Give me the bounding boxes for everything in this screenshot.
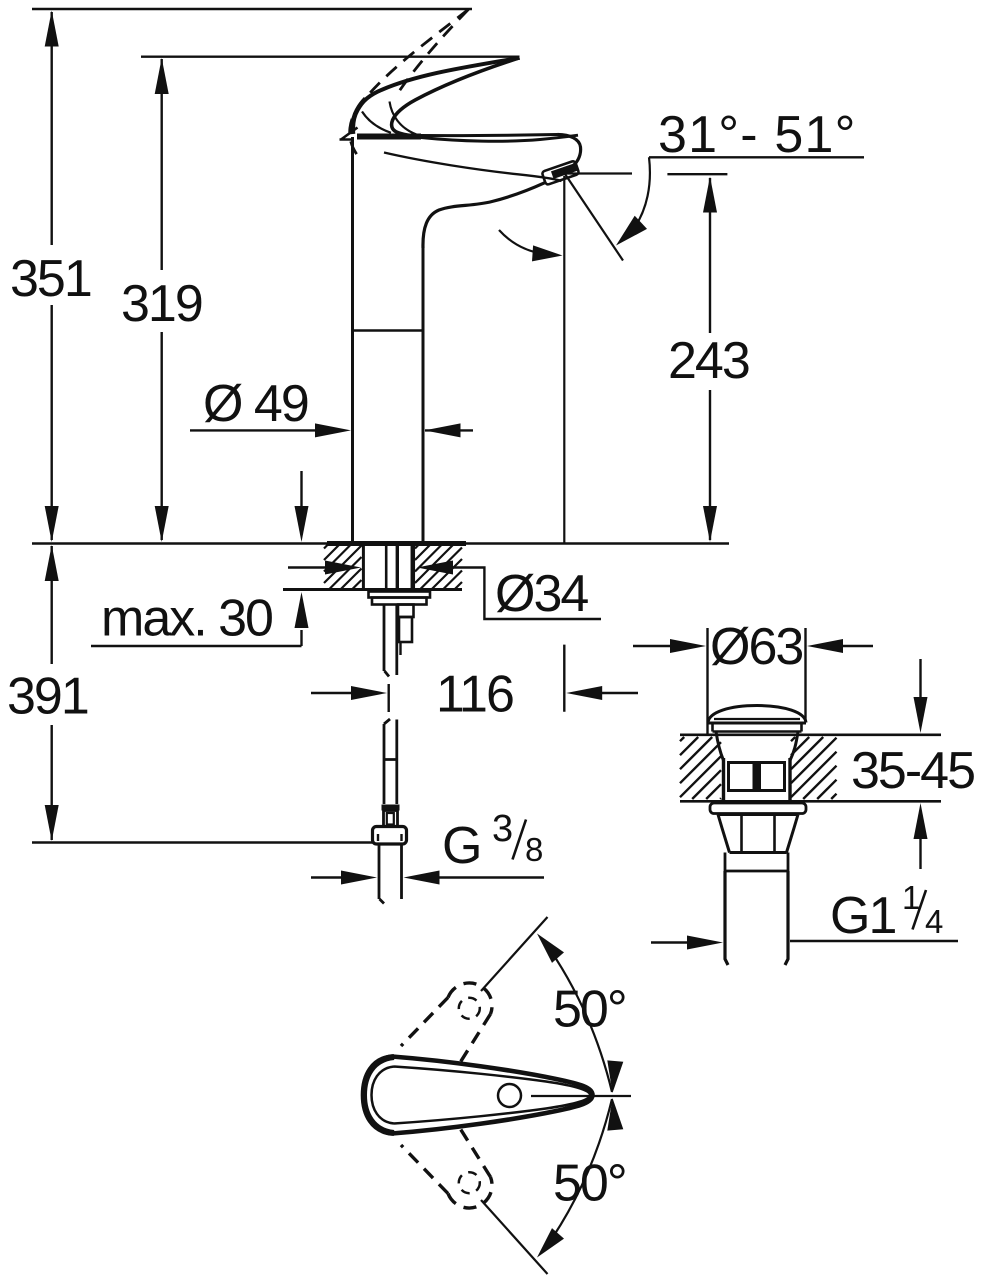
dimension 351 vertical line [51, 12, 53, 540]
counter underside line [283, 588, 462, 591]
supply tube lower section with break [384, 719, 397, 804]
counter top surface line [32, 542, 729, 544]
centre line [531, 1095, 631, 1097]
extension line top (351 reference, raised lever tip) [32, 8, 472, 10]
max.30 leader underline [91, 645, 302, 647]
391 bottom reference line [32, 841, 373, 843]
svg-text:4: 4 [925, 903, 943, 940]
drain body neck [716, 732, 798, 761]
svg-text:319: 319 [121, 275, 202, 333]
dimension G3/8 left arrow [311, 876, 345, 878]
lower 50 deg axis line [481, 1200, 548, 1274]
handle top view outer left arc (heavy) [364, 1057, 394, 1133]
116 right extension line [563, 645, 565, 712]
aerator horizontal reference line [566, 172, 632, 174]
handle pivot circle [498, 1084, 521, 1107]
handle lever top edge [353, 58, 520, 133]
upper 50 deg arc [544, 941, 612, 1092]
extension line (319 reference, lever tip) [141, 56, 520, 58]
dashed handle rotated up [448, 983, 492, 1014]
spout tip end face [558, 135, 581, 175]
max.30 down arrow above counter [300, 471, 302, 528]
lever bottom continuation over spout [421, 135, 578, 141]
handle top view inner outline [372, 1067, 591, 1124]
pop-up pull rod in shank [385, 543, 388, 590]
G3/8 threaded pipe [379, 845, 402, 904]
pull rod guide block [398, 605, 414, 618]
lever inner contour 2 [390, 102, 417, 135]
label 31-51 underline [649, 156, 864, 158]
svg-text:max. 30: max. 30 [101, 590, 272, 648]
drain body walls [724, 758, 791, 801]
dimension 116 right arrow [602, 692, 638, 694]
pop-up cap dome [708, 706, 806, 724]
svg-text:1: 1 [902, 879, 920, 916]
svg-text:G: G [442, 817, 480, 875]
basin counter bottom line (drain) [680, 800, 941, 803]
dimension O49 right arrow [425, 429, 473, 431]
dimension 116 left arrow [311, 692, 355, 694]
nut skirt [725, 853, 788, 872]
counter hatch left block [324, 545, 362, 589]
dimension 243 vertical line [709, 178, 711, 540]
drain hatch left [680, 737, 721, 799]
drain overflow window [729, 763, 785, 791]
spout arm inner top line [384, 153, 562, 182]
body joint line [353, 329, 423, 332]
svg-text:G1: G1 [830, 887, 895, 945]
svg-text:116: 116 [436, 666, 513, 724]
pop-up cap lip [713, 723, 802, 732]
drain tailpipe [725, 871, 788, 965]
dimension O49 left line+arrow [190, 429, 330, 431]
counter top bold segment under faucet [327, 541, 466, 546]
dimension G1 1/4 arrow [651, 941, 691, 943]
mounting shank walls [362, 543, 365, 590]
svg-text:243: 243 [668, 332, 749, 390]
dimension 391 vertical line [51, 546, 53, 840]
svg-text:391: 391 [7, 668, 88, 726]
lever inner contour 1 [362, 112, 391, 133]
svg-text:Ø 49: Ø 49 [203, 375, 308, 433]
angle arc 31-51 with arrow [632, 157, 650, 232]
116 centre tick [388, 684, 390, 712]
spout top edge [420, 135, 558, 136]
spray direction inclined line [565, 174, 623, 261]
dimension O34 right arrow+leader [450, 568, 601, 620]
dimension 319 vertical line [160, 59, 162, 540]
dashed handle rotated down [448, 1177, 492, 1208]
spout underside curve [423, 183, 545, 248]
dimension 243 top tick [667, 173, 727, 175]
mounting washer under counter [369, 592, 431, 598]
lever base junction (cartridge cap) [357, 134, 421, 140]
dashed raised lever (rotated position) [350, 9, 469, 154]
dimension O63 left arrow [633, 645, 672, 647]
faucet body right edge [422, 246, 425, 541]
svg-text:50°: 50° [553, 981, 626, 1039]
svg-text:351: 351 [10, 250, 91, 308]
G3/8 flange nut [373, 827, 407, 845]
drain washer [710, 803, 806, 814]
svg-text:8: 8 [525, 831, 543, 868]
swivel arc arrow (left) [499, 230, 549, 255]
svg-text:Ø34: Ø34 [495, 565, 588, 623]
drain hatch right [791, 737, 837, 799]
max.30 up arrow below counter underside [300, 630, 302, 646]
dimension O34 left arrow [288, 566, 330, 568]
counter hatch right block [415, 545, 462, 589]
lower 50 deg arc [544, 1099, 612, 1250]
upper 50 deg axis line [481, 917, 548, 991]
dimension 35-45 lower arrow [919, 836, 921, 869]
drain hex nut [718, 815, 798, 853]
svg-text:3: 3 [492, 808, 513, 850]
vertical projection line from outlet [563, 176, 565, 543]
svg-text:50°: 50° [553, 1155, 626, 1213]
G3/8 hose coupling [382, 805, 400, 811]
lever front wedge [340, 128, 358, 140]
dimension 35-45 upper arrow [919, 659, 921, 700]
handle top view outer outline [363, 1057, 593, 1134]
pop-up cap edge chord [714, 718, 800, 720]
lever front face heavy [353, 99, 366, 134]
dimension O63 right arrow [838, 645, 873, 647]
faucet body left edge [351, 137, 354, 541]
dimension G3/8 right arrow+line [437, 876, 544, 878]
svg-text:35-45: 35-45 [851, 742, 974, 800]
handle lever underside [392, 58, 520, 137]
aerator outlet (angled) [542, 161, 580, 186]
svg-text:31°- 51°: 31°- 51° [658, 106, 857, 164]
O63 extension lines [708, 628, 806, 734]
basin counter top line (drain) [680, 733, 941, 736]
supply tube upper section [384, 605, 397, 677]
G1 1/4 label line [790, 940, 958, 942]
svg-text:Ø63: Ø63 [710, 618, 802, 676]
